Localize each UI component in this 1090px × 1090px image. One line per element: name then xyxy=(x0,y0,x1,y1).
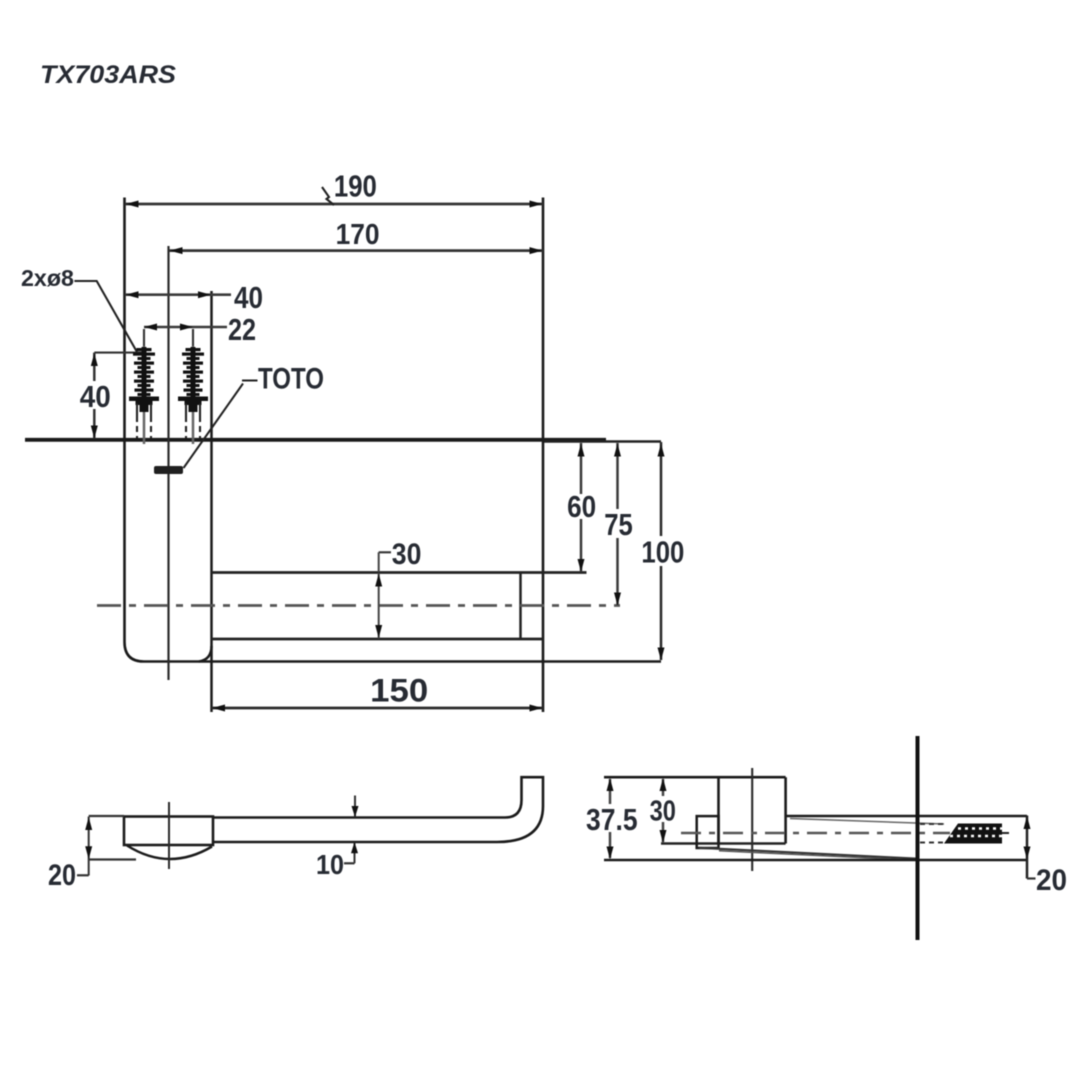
svg-text:10: 10 xyxy=(316,849,344,880)
screw shaft diagonal 2 xyxy=(719,851,916,860)
block (side view) xyxy=(661,777,786,843)
svg-text:40: 40 xyxy=(80,379,111,414)
mount block (top view) xyxy=(124,817,213,846)
dimension 150 xyxy=(212,673,544,712)
dashed leads to anchor xyxy=(920,824,943,843)
svg-text:190: 190 xyxy=(334,169,377,204)
centerline y=833 xyxy=(681,832,950,835)
block centerline xyxy=(168,802,170,869)
tab (side view) xyxy=(697,816,719,848)
bar with hook (top view) xyxy=(213,777,543,842)
svg-text:2xø8: 2xø8 xyxy=(21,265,74,291)
dimension 30 (side) xyxy=(650,778,676,843)
dimension 22 xyxy=(144,312,256,348)
svg-text:60: 60 xyxy=(567,489,596,524)
dimension 40 (left vertical) xyxy=(80,353,143,439)
svg-text:TOTO: TOTO xyxy=(258,362,324,395)
dimension 20 (bottom-left) xyxy=(48,816,136,892)
block centerline (side view) xyxy=(751,768,753,871)
svg-text:30: 30 xyxy=(392,538,422,571)
label 2x dia 8 with leader xyxy=(21,265,137,352)
extension line x=543 (part right edge) xyxy=(542,198,545,713)
top line xyxy=(604,776,786,779)
bottom line (side view) xyxy=(604,859,1027,862)
svg-text:170: 170 xyxy=(336,219,380,251)
dimension 10 xyxy=(316,796,359,881)
dimension 190 xyxy=(125,169,543,208)
dimension 170 xyxy=(169,219,543,254)
svg-text:37.5: 37.5 xyxy=(586,802,638,837)
dimension 75 xyxy=(604,443,633,606)
screw shaft top line xyxy=(790,819,944,825)
svg-text:20: 20 xyxy=(1036,864,1067,897)
dimension 60 xyxy=(567,443,596,572)
bar top edge (side view) xyxy=(786,815,1027,818)
svg-text:TX703ARS: TX703ARS xyxy=(40,61,176,89)
plate centerline x=168.5 xyxy=(167,246,169,680)
plate bottom-right corner arc xyxy=(199,646,212,662)
svg-text:40: 40 xyxy=(234,280,263,315)
dimension 20 (side, right) xyxy=(1024,816,1068,898)
dimension 37.5 xyxy=(586,778,638,860)
dimension 100 xyxy=(641,442,684,661)
svg-text:100: 100 xyxy=(641,535,684,570)
anchor screw 2 xyxy=(178,346,208,444)
horizontal centerline y=605.5 xyxy=(97,604,620,607)
anchor (side view, behind wall) xyxy=(944,824,1009,844)
svg-text:30: 30 xyxy=(650,795,676,827)
svg-text:75: 75 xyxy=(604,507,633,542)
svg-text:22: 22 xyxy=(228,312,256,347)
TOTO label with leader and stamp xyxy=(154,362,324,474)
wall line (front view) xyxy=(25,440,661,442)
svg-text:20: 20 xyxy=(48,859,76,892)
bar outline (front view) xyxy=(212,573,587,640)
dimension 30 (front) xyxy=(375,538,421,639)
dimension 40 (top) xyxy=(125,280,263,315)
svg-text:150: 150 xyxy=(370,673,428,709)
wall (side view) xyxy=(916,736,920,940)
plate left edge and part bottom outline xyxy=(125,198,662,662)
curved bottom of block xyxy=(127,846,212,860)
screw shaft diagonal 1 xyxy=(699,848,916,859)
anchor screw 1 xyxy=(129,346,159,444)
extension line x=211.5 (plate right edge) xyxy=(210,291,213,712)
